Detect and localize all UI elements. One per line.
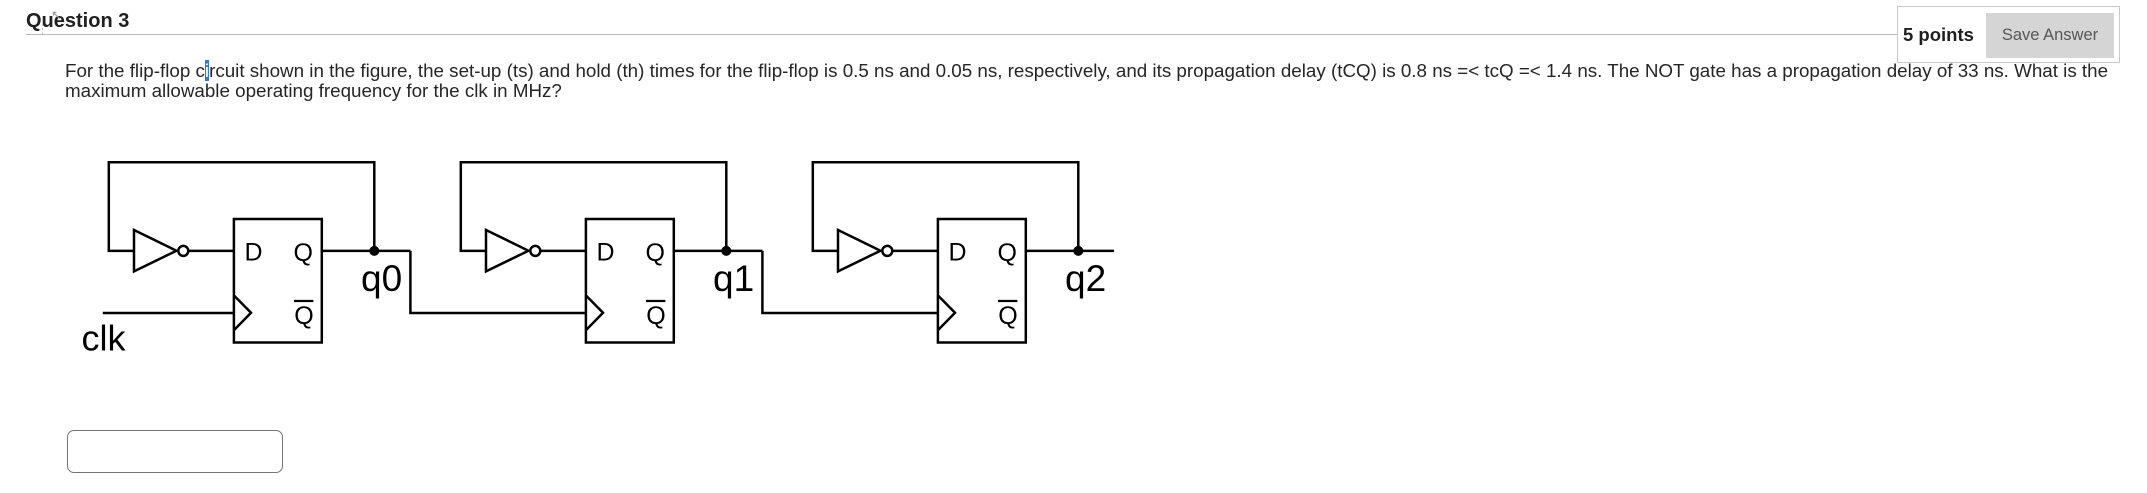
- wire: q0 to FF2 clock input: [410, 251, 586, 313]
- node q2 junction dot: [1073, 246, 1083, 256]
- NOT gate U3 triangle: [838, 230, 881, 271]
- FF1 pin label Q-bar overline: [294, 300, 313, 302]
- NOT gate U1 triangle: [134, 230, 177, 271]
- wire: feedback loop from node q1 to NOT gate U2 input: [461, 162, 727, 251]
- wire: U3 output to D input of flip-flop FF3: [892, 250, 938, 253]
- answer input box: [67, 430, 283, 473]
- node q1 junction dot: [721, 246, 731, 256]
- wire: U2 output to D input of flip-flop FF2: [540, 250, 586, 253]
- wire: FF2 Q output: [674, 250, 763, 253]
- FF2 clock edge triangle: [586, 295, 603, 330]
- flip-flop FF3 box: [938, 219, 1026, 343]
- Save Answer button: [1986, 13, 2114, 58]
- flip-flop FF2 box: [586, 219, 674, 343]
- svg-text:D: D: [245, 239, 263, 267]
- flip-flop FF1 box: [234, 219, 322, 343]
- svg-text:clk: clk: [82, 318, 127, 359]
- wire: U1 output to D input of flip-flop FF1: [188, 250, 234, 253]
- svg-text:Q: Q: [998, 239, 1017, 267]
- wire: clk input to FF1: [103, 312, 234, 315]
- wire: q1 to FF3 clock input: [762, 251, 938, 313]
- FF1 clock edge triangle: [234, 295, 251, 330]
- svg-text:Q: Q: [294, 239, 313, 267]
- header underline: [26, 34, 1897, 35]
- svg-text:q0: q0: [361, 258, 402, 299]
- points box: [1897, 6, 2120, 63]
- text caret artifact (dotted): [42, 19, 44, 34]
- node q0 junction dot: [369, 246, 379, 256]
- wire: feedback loop from node q0 to NOT gate U1 input: [109, 162, 375, 251]
- NOT gate U3 output bubble: [882, 246, 892, 256]
- wire: FF1 Q output: [322, 250, 411, 253]
- wire: feedback loop from node q2 to NOT gate U3 input: [813, 162, 1079, 251]
- wire: FF3 Q output: [1026, 250, 1114, 253]
- svg-text:D: D: [597, 239, 615, 267]
- svg-text:Q: Q: [294, 302, 313, 330]
- svg-text:q1: q1: [713, 258, 754, 299]
- NOT gate U1 output bubble: [178, 246, 188, 256]
- FF3 clock edge triangle: [938, 295, 955, 330]
- header: Question 3: [26, 10, 129, 33]
- svg-text:Q: Q: [998, 302, 1017, 330]
- NOT gate U2 output bubble: [530, 246, 540, 256]
- 5 points label: [1903, 24, 1974, 46]
- question text: [65, 61, 2108, 103]
- svg-text:Q: Q: [646, 239, 665, 267]
- svg-text:D: D: [949, 239, 967, 267]
- svg-text:Q: Q: [646, 302, 665, 330]
- FF2 pin label Q-bar overline: [646, 300, 665, 302]
- svg-text:q2: q2: [1065, 258, 1106, 299]
- mouse cursor artifact over header: [53, 12, 59, 18]
- FF3 pin label Q-bar overline: [998, 300, 1017, 302]
- NOT gate U2 triangle: [486, 230, 529, 271]
